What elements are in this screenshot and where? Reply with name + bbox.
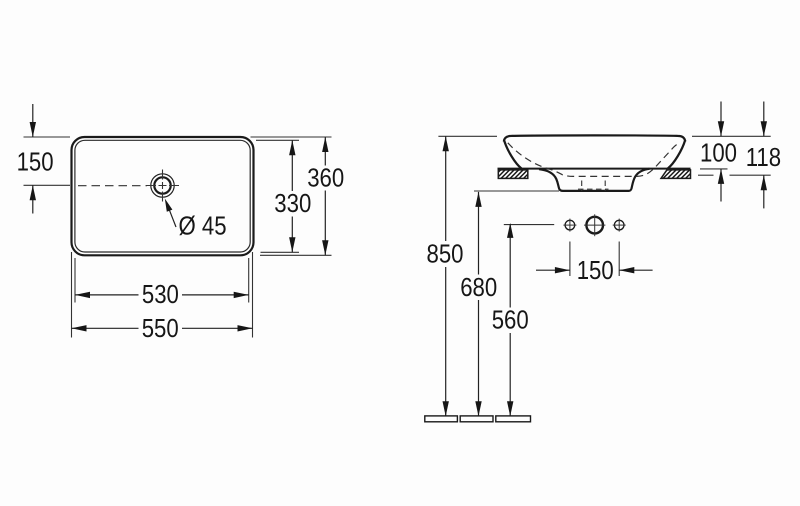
extension line right outer bottom [260,254,332,256]
floor mark 3 [496,416,531,422]
extension line basin underside left (680 ref) [474,190,559,192]
drain crosshair horizontal [146,185,179,187]
svg-text:118: 118 [746,144,781,173]
extension line right inner top [256,139,299,141]
dim 560 line [509,225,511,308]
svg-text:150: 150 [577,257,614,286]
drain hole outer circle [151,174,174,197]
drain hidden line left (dashed vertical) [581,181,583,192]
dim 150 right view arrow right [619,269,652,271]
counter hatch left [498,170,528,179]
counter hatch right [661,170,691,179]
label 100 [700,139,737,168]
label 550 [142,315,179,344]
svg-text:850: 850 [426,240,463,269]
label 330 [274,190,311,219]
dim 150 right view arrow left [536,269,570,271]
svg-text:360: 360 [307,164,344,193]
basin left outer wall [504,140,522,169]
label 360 [307,164,344,193]
faucet hole center circle [586,217,603,234]
dim 150 tick top [24,136,71,138]
dim 150 tick bottom [24,184,71,186]
label 150 right [577,257,614,286]
dim 330 line [291,140,293,191]
label 850 [426,240,463,269]
basin neck and foot below counter [539,169,650,191]
extension line bottom 530 right [248,258,250,303]
extension line basin bottom right [698,174,714,176]
extension line bottom 550 right [252,252,254,338]
extension line rim right [692,135,771,137]
drain hole inner circle [154,177,170,193]
faucet hole center crosshair [584,224,605,226]
label 560 [492,306,529,335]
floor mark 1 [425,416,458,422]
extension line hole right down [618,242,620,277]
extension line bottom 550 left [71,252,73,338]
dim 530 line [75,294,139,296]
counter top line [498,168,691,170]
dim 118 arrow top [763,102,765,137]
extension line faucet level left [504,224,554,226]
svg-text:530: 530 [142,280,179,309]
extension line bottom 530 left [74,258,76,303]
centerline dashed (horizontal through drain) [78,185,147,187]
faucet hole left crosshair [563,224,576,226]
svg-text:150: 150 [17,148,54,177]
label 680 [460,274,497,303]
extension line hole left down [569,242,571,277]
dim 150 arrow bottom [32,185,34,213]
svg-text:560: 560 [492,306,529,335]
leader arrowhead [165,199,173,212]
extension line right outer top [251,136,332,138]
label 118 [746,144,781,173]
dim 360 line [324,137,326,166]
label 530 [142,280,179,309]
svg-text:550: 550 [142,315,179,344]
faucet hole left small circle [565,220,575,230]
dim 150 arrow top [32,104,34,137]
inner bowl hidden edge (dashed) [508,143,680,177]
extension line right inner bottom [261,251,300,253]
extension line rim left [438,135,497,137]
drain crosshair vertical [162,170,164,203]
label D45 [178,212,226,241]
svg-text:680: 680 [460,274,497,303]
dim 100 arrow top [720,102,722,137]
basin right outer wall [668,140,686,169]
faucet hole right crosshair [613,224,626,226]
drain hidden line right (dashed vertical) [604,181,606,192]
label 150 left [17,148,54,177]
dim 680 line [478,192,480,275]
extension line counter top right [700,168,728,170]
basin inner edge (rounded rectangle) [75,140,250,252]
floor mark 2 [460,416,493,422]
faucet hole right small circle [614,220,624,230]
svg-text:100: 100 [700,139,737,168]
dim 850 line [445,136,447,241]
drain flange hidden line (dashed horizontal) [578,188,609,190]
dim 550 line [72,327,139,329]
dim 100 arrow bottom [720,169,722,202]
leader line to drain [169,210,176,227]
dim 118 arrow bottom [763,175,765,208]
basin outer rim (rounded rectangle) [72,137,254,255]
svg-text:330: 330 [274,190,311,219]
svg-text:Ø 45: Ø 45 [178,212,226,241]
basin rim profile [504,135,685,141]
